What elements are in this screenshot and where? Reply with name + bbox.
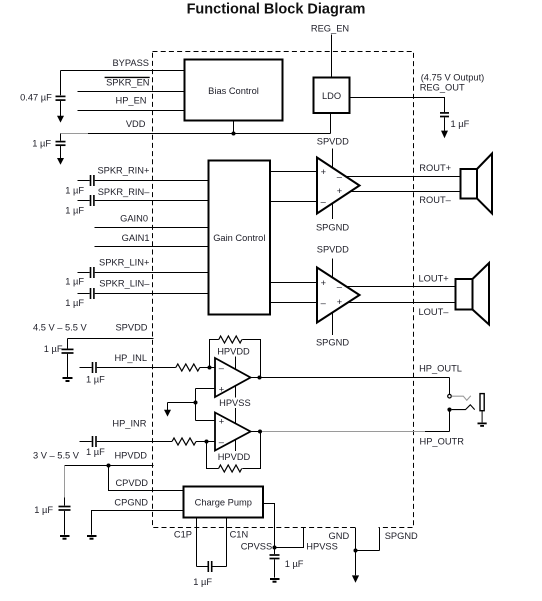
svg-text:HPVDD: HPVDD [217,346,250,356]
capacitor C-spvdd 1uF [44,339,74,378]
svg-text:SPKR_LIN+: SPKR_LIN+ [99,258,149,268]
junction dot opamp2 out [258,430,262,434]
junction dot opamp1 out [258,376,262,380]
gain control block [209,161,271,315]
wire VDD gray segment [61,133,89,135]
wire opamp2 HPVSS pin [235,408,237,424]
wire REG_EN [331,35,333,78]
svg-text:SPVDD: SPVDD [317,136,349,146]
wire charge pump CPVSS output [263,504,275,548]
resistor R-inR [172,438,196,445]
mask dashed gap between GND and SPGND pins [357,526,379,529]
svg-text:+: + [321,278,326,288]
op-amp U1 HP left [215,358,251,397]
ground bar HPVDD cap [60,536,70,539]
wire opamp1 noninv input [196,388,216,390]
feedback loop opamp2 with resistor [207,432,261,473]
svg-text:HPVDD: HPVDD [218,452,251,462]
svg-text:HP_OUTR: HP_OUTR [420,437,465,447]
svg-text:SPGND: SPGND [385,531,418,541]
wire GAIN0 [95,227,209,229]
wire SPVDD label to amp1 [332,149,334,169]
wire amp2 SPVDD pin [332,259,334,279]
wire opamp2 noninv input [196,420,216,422]
svg-text:1 µF: 1 µF [65,298,84,308]
wire SPGND pin [356,528,380,551]
svg-text:BYPASS: BYPASS [112,58,149,68]
svg-text:LDO: LDO [322,91,341,101]
svg-text:Functional Block Diagram: Functional Block Diagram [187,1,366,17]
node SPKR_EN label with overline [105,77,150,87]
svg-text:4.5 V – 5.5 V: 4.5 V – 5.5 V [33,323,88,333]
wire HP_OUTR gray segment [262,431,425,433]
wire ROUT- [351,191,461,193]
svg-text:+: + [219,384,224,394]
bias control block [185,60,283,121]
svg-text:CPVDD: CPVDD [115,478,148,488]
capacitor C1 flying 1uF [193,561,226,587]
svg-text:GAIN0: GAIN0 [120,214,148,224]
ground bar CPVSS cap [270,579,280,582]
wire LDO SPVDD pin [330,113,332,134]
wire bias vertical [195,389,197,421]
wire LOUT+ [346,286,456,288]
junction dot opamp1 inv [208,366,212,370]
svg-text:1 µF: 1 µF [451,119,470,129]
svg-text:–: – [321,298,327,308]
junction dot HPVDD-CPVDD [107,464,111,468]
svg-text:1 µF: 1 µF [86,447,105,457]
wire LOUT- [349,302,457,304]
speaker amplifier A2 [317,268,360,323]
wire SPKR_RIN- input with coupling capacitor [78,195,209,206]
svg-text:SPVDD: SPVDD [115,323,147,333]
LDO block [314,78,350,114]
wire HP_OUTR black segment [425,431,450,433]
speaker SP2 [456,263,490,325]
junction dot bias node [194,401,198,405]
svg-text:LOUT+: LOUT+ [419,274,449,284]
wire gain to amp1 in+ [270,171,317,173]
wire HPVDD capacitor branch gray [64,466,66,499]
headphone jack ring contact [447,405,474,432]
ground bar CPGND [87,536,97,539]
wire bias control VDD pin [233,121,235,134]
wire GND pin [355,528,357,551]
wire HPVSS pin [275,528,304,548]
svg-text:–: – [337,282,343,292]
svg-text:+: + [337,186,342,196]
svg-text:ROUT+: ROUT+ [419,163,451,173]
speaker SP1 [461,154,493,214]
wire SPKR_LIN+ input with coupling capacitor [78,267,209,278]
wire CPVDD [109,466,184,491]
svg-text:Bias Control: Bias Control [208,86,259,96]
svg-text:SPGND: SPGND [316,223,349,233]
svg-text:(4.75 V Output): (4.75 V Output) [421,73,485,83]
svg-text:HP_INL: HP_INL [114,353,147,363]
wire gain to amp2 in+ [270,282,317,284]
wire HP_INL input with coupling capacitor [80,362,176,373]
wire BYPASS [61,70,185,72]
svg-text:GAIN1: GAIN1 [122,233,150,243]
svg-text:REG_EN: REG_EN [311,24,349,34]
svg-text:HPVSS: HPVSS [306,541,338,551]
svg-text:C1P: C1P [174,529,192,539]
wire C1N pin [226,518,228,567]
headphone jack tip contact [448,378,471,401]
junction dot VDD-bias [232,132,236,136]
wire bias node to ground [168,402,196,404]
capacitor C-vdd 1uF [32,134,65,165]
capacitor C-hpvdd 1uF [34,498,70,535]
svg-text:GND: GND [329,531,350,541]
junction dot opamp2 inv [205,440,209,444]
svg-text:+: + [337,297,342,307]
svg-text:SPKR_EN: SPKR_EN [106,78,149,88]
wire SPKR_EN [78,91,185,93]
wire LDO output REG_OUT [350,98,445,113]
svg-text:0.47 µF: 0.47 µF [20,92,52,102]
svg-text:–: – [219,437,225,447]
wire HP_INR input with coupling capacitor [80,436,173,447]
svg-text:1 µF: 1 µF [34,505,53,515]
IC boundary dashed rectangle [153,52,414,528]
capacitor C-cpvss 1uF [270,548,304,578]
resistor R-inL [176,364,200,371]
junction dot CPVSS [273,546,277,550]
wire resistor to opamp2 [196,441,215,443]
speaker amplifier A1 [317,158,360,214]
wire amp2 SPGND pin [332,313,334,336]
ground bar SPVDD cap [63,378,73,381]
svg-text:HP_INR: HP_INR [112,419,146,429]
svg-text:HP_OUTL: HP_OUTL [419,363,462,373]
wire GAIN1 [95,246,209,248]
svg-text:Gain Control: Gain Control [213,233,265,243]
wire SPKR_LIN- input with coupling capacitor [78,288,209,299]
svg-text:+: + [321,167,326,177]
wire C1P pin [196,518,198,567]
wire opamp1 output HP_OUTL [251,377,450,379]
op-amp U2 HP right [215,413,251,451]
wire resistor to opamp1 [200,367,215,369]
svg-text:3 V – 5.5 V: 3 V – 5.5 V [33,451,80,461]
wire gain to amp1 in- [270,201,317,203]
svg-text:VDD: VDD [126,119,146,129]
svg-text:SPVDD: SPVDD [317,245,349,255]
wire opamp2 output stub [251,431,263,433]
wire ROUT+ [346,176,461,178]
capacitor C-regout 1uF [440,113,470,138]
svg-text:CPVSS: CPVSS [241,541,273,551]
svg-text:1 µF: 1 µF [65,277,84,287]
svg-text:1 µF: 1 µF [44,344,63,354]
svg-text:1 µF: 1 µF [65,205,84,215]
svg-text:SPKR_LIN–: SPKR_LIN– [99,279,150,289]
wire SPVDD rail [68,338,154,340]
svg-text:–: – [321,197,327,207]
svg-text:SPKR_RIN–: SPKR_RIN– [98,187,150,197]
svg-text:1 µF: 1 µF [65,185,84,195]
svg-text:–: – [219,363,225,373]
wire opamp1 HPVDD pin [235,357,237,370]
wire CPGND [92,511,184,535]
svg-text:–: – [337,172,343,182]
svg-text:1 µF: 1 µF [32,138,51,148]
svg-text:HPVSS: HPVSS [219,398,251,408]
wire VDD [88,133,331,135]
capacitor C-bypass 0.47uF [20,71,65,123]
headphone jack sleeve and ground [478,394,487,426]
junction dot GND [354,549,358,553]
wire opamp2 HPVDD pin [235,440,237,452]
wire SPKR_RIN+ input with coupling capacitor [78,175,209,186]
wire gain to amp2 in- [270,302,317,304]
wire HP_EN [78,110,185,112]
svg-text:1 µF: 1 µF [285,559,304,569]
svg-text:HPVDD: HPVDD [114,451,147,461]
svg-text:+: + [219,417,224,427]
wire amp1 SPGND pin [332,203,334,219]
ground arrow bias [164,403,171,417]
svg-text:1 µF: 1 µF [86,374,105,384]
svg-text:LOUT–: LOUT– [419,307,450,317]
svg-text:CPGND: CPGND [114,498,148,508]
feedback loop opamp1 with resistor [210,336,261,378]
ground arrow GND [352,551,359,583]
wire opamp1 HPVSS pin [235,386,237,398]
svg-text:C1N: C1N [230,529,249,539]
svg-text:REG_OUT: REG_OUT [420,83,465,93]
svg-text:1 µF: 1 µF [193,577,212,587]
charge pump block [184,487,264,518]
svg-text:HP_EN: HP_EN [115,95,146,105]
wire HPVDD rail [65,465,154,467]
svg-text:ROUT–: ROUT– [419,195,451,205]
svg-text:SPGND: SPGND [316,338,349,348]
svg-text:SPKR_RIN+: SPKR_RIN+ [97,166,149,176]
svg-text:Charge Pump: Charge Pump [195,497,252,507]
